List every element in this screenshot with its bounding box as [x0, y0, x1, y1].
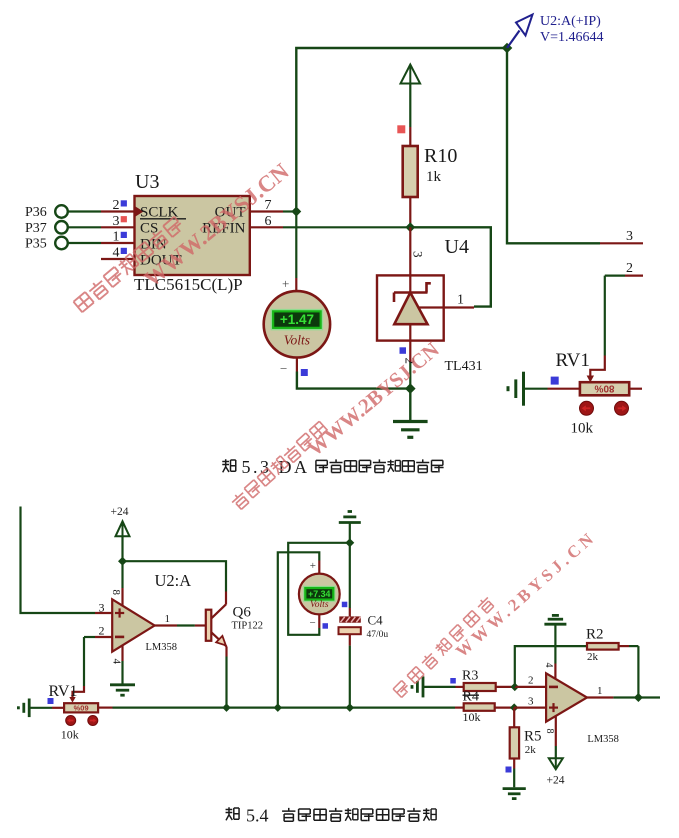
svg-text:5.4: 5.4 — [246, 806, 269, 826]
svg-text:+24: +24 — [111, 506, 129, 518]
label RV1 bottom value — [61, 728, 79, 742]
op-amp U2:A LM358 — [111, 571, 192, 665]
svg-text:Q6: Q6 — [233, 605, 252, 621]
svg-text:4: 4 — [543, 663, 554, 668]
svg-text:+1.47: +1.47 — [280, 312, 314, 327]
svg-text:−: − — [310, 617, 316, 629]
ground (left of bottom RV1) — [18, 699, 29, 718]
svg-text:60%: 60% — [73, 703, 88, 712]
wire +24 to Q6 collector — [123, 561, 227, 604]
svg-text:6: 6 — [265, 214, 272, 229]
caption figure 5.3 — [222, 457, 443, 477]
wire REFIN to R10 bottom — [283, 226, 410, 228]
wire feedback to R2 — [515, 646, 587, 687]
svg-text:3: 3 — [99, 601, 105, 615]
junction output node — [634, 693, 643, 702]
svg-text:R3: R3 — [462, 669, 478, 684]
svg-text:P36: P36 — [25, 205, 47, 220]
svg-text:+24: +24 — [547, 775, 565, 787]
voltmeter +7.34 — [299, 560, 340, 629]
wire node 3 to U2:A pin3 — [21, 507, 113, 615]
capacitor C4 47/0u — [339, 543, 389, 708]
ground (below R5) — [503, 789, 526, 799]
potentiometer RV1 10k (bottom) — [49, 683, 99, 712]
button RV1 bottom down — [88, 716, 98, 726]
svg-text:P35: P35 — [25, 237, 47, 252]
wire RV1 bottom to ground — [29, 707, 52, 709]
wire U2:A pin4 to ground — [121, 645, 123, 684]
svg-text:2: 2 — [528, 675, 534, 687]
pin indicator voltmeter minus — [301, 369, 308, 376]
svg-text:8: 8 — [544, 729, 555, 734]
svg-text:TL431: TL431 — [445, 359, 483, 374]
ground (left of RV1) — [508, 372, 524, 406]
wire P35 to U3 DIN — [68, 242, 101, 244]
wire voltmeter minus to ground node — [297, 358, 410, 389]
DAC U3 TLC5615C(L)P — [101, 171, 283, 294]
svg-text:8: 8 — [110, 590, 122, 596]
svg-text:R10: R10 — [424, 145, 457, 167]
potentiometer RV1 10k (top) — [548, 350, 643, 395]
svg-text:47/0u: 47/0u — [367, 630, 389, 640]
wire ground to R3 — [423, 686, 464, 688]
ground (top circuit) — [393, 389, 428, 438]
pin indicator voltmeter2 — [342, 602, 348, 608]
svg-text:2k: 2k — [525, 744, 537, 756]
svg-text:+: + — [282, 276, 289, 291]
wire U3 OUT to node — [283, 210, 296, 212]
wire voltmeter minus loop to C4 top — [288, 543, 350, 635]
svg-text:−: − — [280, 361, 287, 376]
resistor R4 10k — [463, 690, 515, 725]
junction OUT node — [291, 207, 301, 217]
svg-text:3: 3 — [113, 214, 120, 229]
wire node 3 (to U2:A +IP) — [507, 48, 643, 244]
terminal P35 — [25, 237, 68, 252]
wire RV1 to ground — [524, 388, 548, 390]
wire P36 to U3 SCLK — [68, 210, 101, 212]
svg-text:3: 3 — [626, 229, 633, 244]
svg-text:U3: U3 — [135, 171, 159, 193]
wire P37 to U3 CS — [68, 226, 101, 228]
svg-text:4: 4 — [113, 246, 120, 261]
svg-text:CS: CS — [140, 220, 158, 236]
junction +24 node — [118, 557, 127, 566]
shunt regulator U4 TL431 — [377, 227, 474, 388]
junction R10 bottom node — [405, 222, 415, 232]
wire RV1 wiper to U2:A pin2 — [69, 624, 112, 703]
svg-text:1: 1 — [597, 685, 603, 697]
junction R3 to pin2 — [511, 683, 519, 691]
ground (inverted, above C4) — [339, 512, 361, 543]
caption figure 5.4 — [226, 806, 437, 826]
voltmeter +1.47 — [264, 276, 330, 376]
svg-text:1: 1 — [457, 293, 464, 308]
wire OUT node up and across top — [296, 48, 507, 212]
svg-text:80%: 80% — [594, 383, 614, 394]
svg-text:10k: 10k — [571, 421, 594, 437]
svg-text:2: 2 — [626, 261, 633, 276]
svg-text:1k: 1k — [426, 169, 442, 185]
wire node 2 (to RV1 wiper) — [587, 261, 643, 383]
svg-text:C4: C4 — [368, 613, 384, 628]
resistor R5 2k — [510, 708, 542, 788]
junction R4 to pin3 — [510, 703, 518, 711]
ground (left of R3) — [412, 676, 423, 697]
junction probe node — [502, 43, 513, 54]
resistor R10 1k — [403, 127, 458, 227]
wire op-amp2 output — [587, 685, 660, 698]
svg-text:RV1: RV1 — [49, 683, 78, 700]
svg-text:3: 3 — [528, 696, 534, 708]
button RV1 up — [580, 401, 594, 415]
svg-text:10k: 10k — [463, 710, 481, 724]
svg-text:Volts: Volts — [310, 600, 329, 610]
label RV1 value — [571, 421, 594, 437]
svg-text:Volts: Volts — [284, 333, 310, 348]
svg-text:U2:A(+IP): U2:A(+IP) — [540, 14, 601, 29]
junction rail at Q6 emitter — [222, 703, 230, 711]
svg-text:4: 4 — [111, 659, 123, 665]
pin indicator RV1 bottom — [48, 698, 54, 704]
svg-text:LM358: LM358 — [587, 734, 619, 745]
wire emitter rail — [98, 706, 464, 708]
junction rail at C4 branch — [346, 703, 354, 711]
ground (below U2:A) — [110, 685, 135, 695]
pin indicator U4 bottom — [400, 347, 418, 364]
button RV1 bottom up — [66, 716, 76, 726]
pin indicator R5 — [506, 767, 512, 773]
op-amp U2:B LM358 — [546, 673, 619, 745]
junction rail at voltmeter branch — [274, 703, 282, 711]
svg-text:1: 1 — [113, 230, 120, 245]
svg-text:2: 2 — [99, 624, 105, 638]
svg-text:TIP122: TIP122 — [232, 621, 264, 632]
power terminal +24 (top) — [111, 506, 130, 561]
svg-text:10k: 10k — [61, 728, 79, 742]
wire rail to voltmeter plus — [278, 552, 320, 707]
pin indicator C4 — [323, 623, 329, 629]
ground (inverted, above op-amp2) — [543, 615, 566, 679]
svg-text:P37: P37 — [25, 221, 47, 236]
power terminal +24 (bottom, inverted) — [544, 716, 565, 787]
svg-text:3: 3 — [411, 251, 426, 258]
label TL431 — [445, 359, 483, 374]
svg-text:LM358: LM358 — [146, 642, 178, 653]
pin indicator R10 top — [397, 125, 405, 133]
junction ground node — [405, 383, 416, 394]
svg-text:+7.34: +7.34 — [308, 589, 330, 599]
svg-text:V=1.46644: V=1.46644 — [540, 30, 604, 45]
svg-text:+: + — [310, 560, 316, 572]
wire R3 node to op-amp pin2 — [515, 675, 546, 687]
wire R10 node to U4 pin1 — [410, 227, 491, 306]
terminal P37 — [25, 221, 68, 236]
wire OUT node down to voltmeter — [295, 212, 297, 293]
resistor R3 — [462, 669, 515, 692]
terminal P36 — [25, 205, 68, 220]
voltage probe U2:A(+IP) — [507, 14, 604, 48]
pin indicator R3 — [450, 678, 456, 684]
svg-text:R2: R2 — [586, 627, 604, 643]
resistor R2 2k — [586, 627, 638, 698]
wire U2:A output to Q6 base — [155, 613, 206, 626]
svg-text:RV1: RV1 — [556, 350, 590, 371]
svg-text:R5: R5 — [524, 729, 542, 745]
junction C4 top node — [345, 538, 354, 547]
pin indicator RV1 left — [551, 377, 559, 385]
wire +24 to U2:A pin8 — [110, 561, 123, 606]
svg-text:U2:A: U2:A — [155, 571, 192, 590]
transistor Q6 TIP122 — [206, 604, 263, 707]
svg-text:2k: 2k — [587, 651, 599, 663]
svg-text:U4: U4 — [445, 236, 469, 258]
button RV1 down — [615, 401, 629, 415]
svg-text:1: 1 — [165, 613, 171, 625]
wire R4 node to op-amp pin3 — [514, 696, 546, 708]
power terminal above R10 — [401, 65, 421, 128]
svg-text:2: 2 — [113, 198, 120, 213]
